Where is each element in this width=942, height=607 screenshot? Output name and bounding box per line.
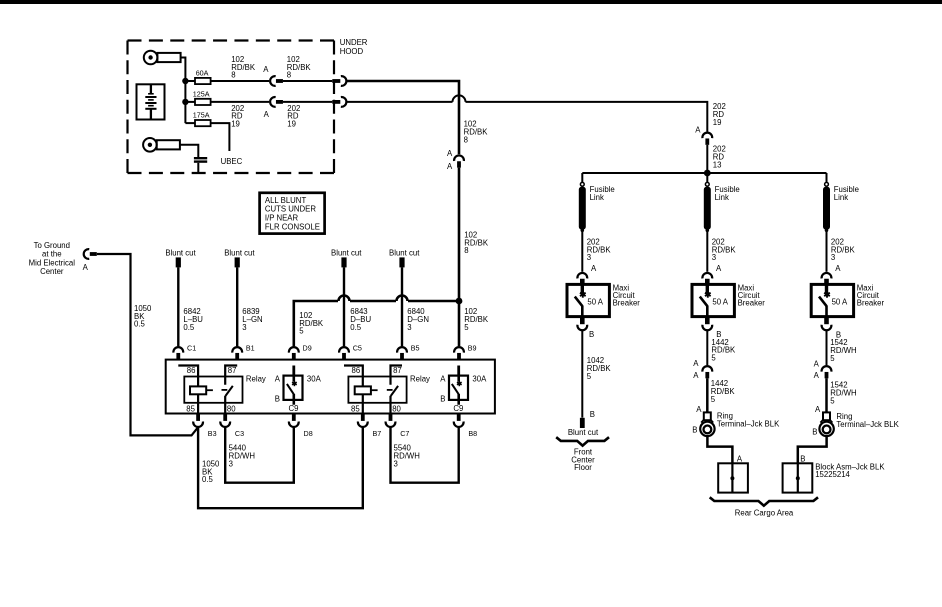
svg-text:0.5: 0.5: [350, 323, 362, 332]
svg-text:3: 3: [242, 323, 246, 332]
svg-text:Relay: Relay: [410, 375, 430, 384]
svg-text:Breaker: Breaker: [738, 298, 766, 307]
svg-text:B: B: [589, 330, 594, 339]
svg-text:B8: B8: [468, 429, 477, 438]
svg-text:B1: B1: [246, 343, 255, 352]
svg-text:C3: C3: [235, 429, 244, 438]
svg-text:0.5: 0.5: [134, 320, 146, 329]
svg-text:A: A: [835, 264, 841, 273]
svg-text:Blunt cut: Blunt cut: [331, 248, 362, 257]
svg-text:B5: B5: [411, 343, 420, 352]
svg-text:Blunt cut: Blunt cut: [389, 248, 420, 257]
svg-text:D8: D8: [304, 429, 313, 438]
svg-text:A: A: [695, 125, 701, 134]
svg-text:A: A: [447, 162, 453, 171]
svg-text:A: A: [263, 65, 269, 74]
svg-text:8: 8: [287, 71, 291, 80]
svg-text:3: 3: [831, 253, 835, 262]
svg-text:3: 3: [587, 253, 591, 262]
svg-text:175A: 175A: [193, 111, 210, 120]
svg-text:30A: 30A: [307, 375, 322, 384]
svg-text:80: 80: [227, 404, 236, 413]
svg-text:C1: C1: [187, 343, 196, 352]
svg-text:Blunt cut: Blunt cut: [165, 248, 196, 257]
svg-text:85: 85: [351, 404, 360, 413]
svg-text:A: A: [737, 454, 743, 463]
svg-text:Breaker: Breaker: [613, 298, 641, 307]
svg-text:To Ground: To Ground: [34, 241, 70, 250]
svg-text:A: A: [275, 375, 281, 384]
svg-text:125A: 125A: [193, 89, 210, 98]
svg-text:A: A: [264, 110, 270, 119]
svg-text:Link: Link: [834, 193, 848, 202]
svg-text:8: 8: [231, 71, 235, 80]
svg-text:B: B: [692, 425, 697, 434]
svg-text:13: 13: [713, 160, 722, 169]
svg-text:3: 3: [229, 460, 233, 469]
svg-text:I/P NEAR: I/P NEAR: [265, 214, 299, 223]
svg-text:C5: C5: [353, 343, 362, 352]
svg-text:B3: B3: [208, 429, 217, 438]
svg-text:3: 3: [712, 253, 716, 262]
svg-text:A: A: [83, 263, 89, 272]
svg-text:A: A: [815, 405, 821, 414]
svg-text:A: A: [447, 149, 453, 158]
svg-text:Rear Cargo Area: Rear Cargo Area: [735, 509, 794, 518]
svg-text:D9: D9: [303, 343, 312, 352]
svg-text:HOOD: HOOD: [340, 47, 364, 56]
svg-text:87: 87: [228, 366, 237, 375]
svg-text:Relay: Relay: [246, 375, 266, 384]
svg-text:at the: at the: [42, 250, 62, 259]
svg-text:60A: 60A: [196, 68, 209, 77]
svg-text:C7: C7: [400, 429, 409, 438]
svg-text:5: 5: [464, 323, 469, 332]
svg-text:19: 19: [287, 120, 296, 129]
svg-text:86: 86: [352, 366, 361, 375]
svg-text:Blunt cut: Blunt cut: [568, 428, 599, 437]
svg-text:85: 85: [186, 404, 195, 413]
svg-text:Floor: Floor: [574, 463, 592, 472]
svg-text:87: 87: [393, 366, 402, 375]
svg-text:5: 5: [299, 327, 304, 336]
svg-text:UNDER: UNDER: [340, 38, 368, 47]
svg-text:UBEC: UBEC: [221, 157, 243, 166]
svg-text:A: A: [693, 371, 699, 380]
svg-text:50 A: 50 A: [712, 298, 728, 307]
svg-text:B9: B9: [468, 343, 477, 352]
svg-text:A: A: [814, 359, 820, 368]
svg-text:B: B: [440, 395, 445, 404]
svg-text:Breaker: Breaker: [857, 298, 885, 307]
svg-text:CUTS UNDER: CUTS UNDER: [265, 205, 316, 214]
svg-text:30A: 30A: [472, 375, 487, 384]
svg-text:Link: Link: [590, 193, 604, 202]
svg-text:5: 5: [587, 372, 592, 381]
svg-text:86: 86: [187, 366, 196, 375]
svg-text:19: 19: [231, 120, 240, 129]
svg-text:Terminal–Jck BLK: Terminal–Jck BLK: [717, 420, 780, 429]
svg-text:3: 3: [407, 323, 411, 332]
svg-text:Mid Electrical: Mid Electrical: [29, 258, 76, 267]
svg-text:A: A: [716, 264, 722, 273]
svg-text:8: 8: [464, 135, 468, 144]
svg-text:80: 80: [392, 404, 401, 413]
svg-text:19: 19: [713, 118, 722, 127]
svg-text:A: A: [814, 371, 820, 380]
svg-text:A: A: [591, 264, 597, 273]
svg-text:Terminal–Jck BLK: Terminal–Jck BLK: [836, 420, 899, 429]
svg-text:B7: B7: [373, 429, 382, 438]
svg-text:B: B: [812, 428, 817, 437]
svg-text:B: B: [590, 410, 595, 419]
svg-text:8: 8: [464, 246, 468, 255]
svg-text:C9: C9: [453, 404, 463, 413]
svg-text:FLR CONSOLE: FLR CONSOLE: [265, 222, 320, 231]
svg-text:A: A: [440, 375, 446, 384]
svg-text:15225214: 15225214: [815, 470, 850, 479]
svg-text:Center: Center: [40, 267, 64, 276]
svg-text:5: 5: [711, 354, 716, 363]
svg-text:B: B: [800, 454, 805, 463]
svg-text:50 A: 50 A: [587, 298, 603, 307]
svg-text:C9: C9: [289, 404, 299, 413]
svg-text:B: B: [275, 395, 280, 404]
svg-text:3: 3: [394, 460, 398, 469]
svg-text:0.5: 0.5: [202, 475, 214, 484]
svg-text:A: A: [696, 405, 702, 414]
svg-text:0.5: 0.5: [183, 323, 195, 332]
svg-text:50 A: 50 A: [832, 298, 848, 307]
svg-text:5: 5: [830, 396, 835, 405]
svg-text:5: 5: [830, 354, 835, 363]
svg-text:ALL BLUNT: ALL BLUNT: [265, 196, 307, 205]
svg-text:Link: Link: [715, 193, 729, 202]
svg-text:Blunt cut: Blunt cut: [224, 248, 255, 257]
svg-text:5: 5: [711, 395, 716, 404]
svg-text:A: A: [693, 359, 699, 368]
